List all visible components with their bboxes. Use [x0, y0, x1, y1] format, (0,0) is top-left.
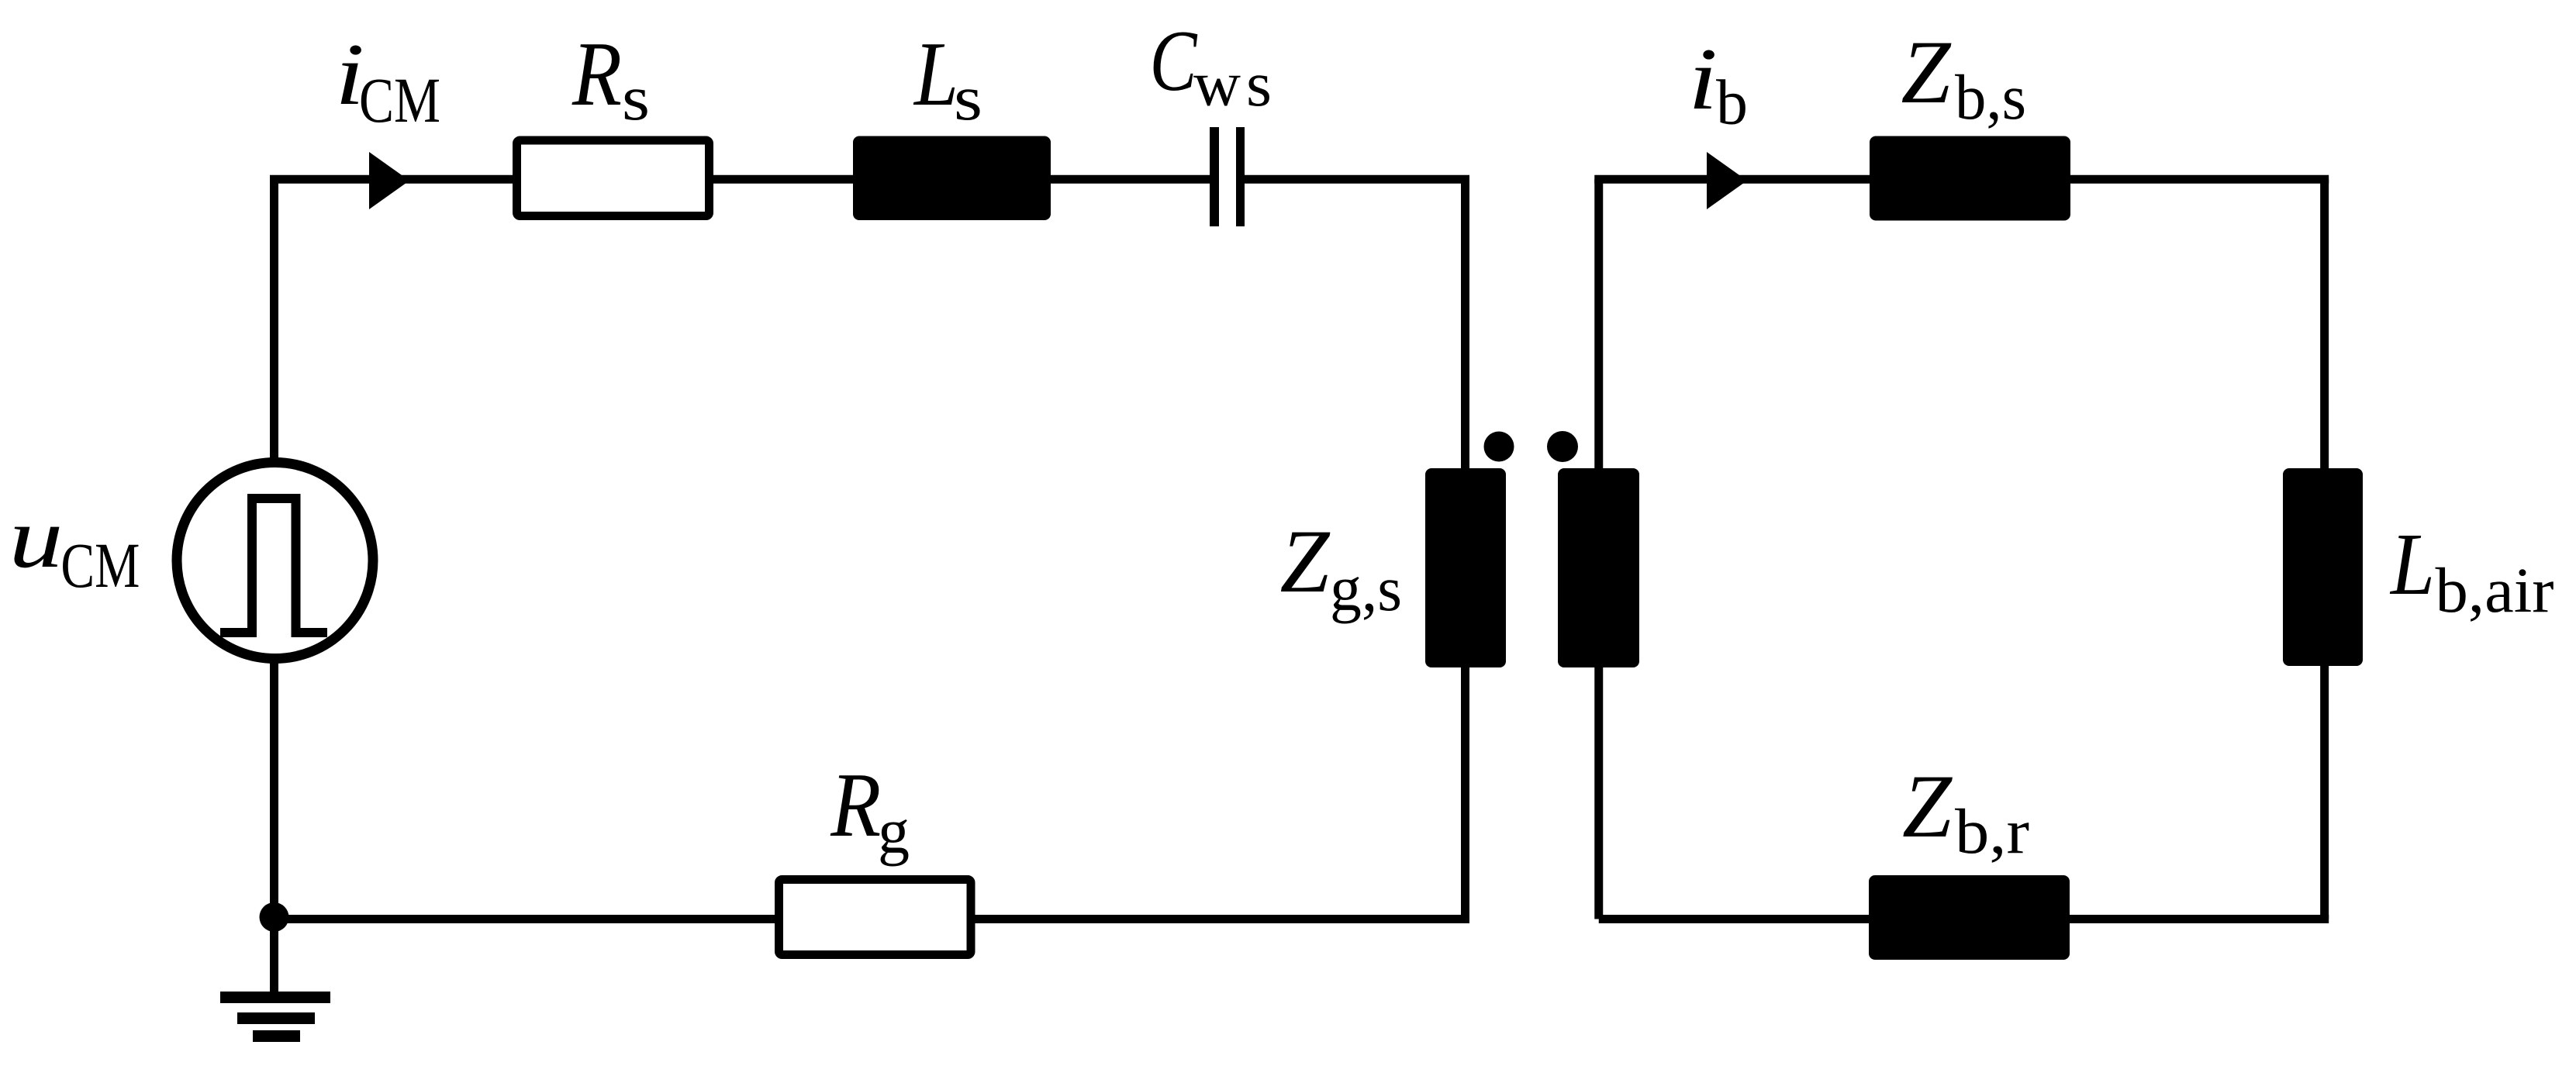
svg-text:Z: Z — [1901, 22, 1953, 122]
svg-text:C: C — [1150, 13, 1198, 109]
svg-text:Z: Z — [1280, 512, 1331, 612]
svg-text:Z: Z — [1902, 757, 1953, 857]
svg-text:b: b — [1716, 67, 1748, 138]
svg-text:R: R — [571, 22, 622, 125]
svg-text:g: g — [878, 795, 910, 867]
svg-text:CM: CM — [60, 529, 140, 601]
svg-text:b,air: b,air — [2436, 554, 2554, 626]
svg-text:g,s: g,s — [1330, 553, 1402, 624]
svg-text:u: u — [9, 490, 64, 586]
svg-text:w: w — [1193, 48, 1241, 119]
svg-text:L: L — [2389, 515, 2435, 613]
svg-text:s: s — [1246, 48, 1272, 119]
svg-text:i: i — [1688, 29, 1718, 128]
svg-text:s: s — [622, 62, 650, 133]
svg-text:CM: CM — [359, 64, 440, 136]
svg-text:s: s — [954, 62, 982, 133]
svg-text:L: L — [913, 22, 958, 125]
svg-text:b,s: b,s — [1955, 61, 2026, 133]
svg-text:R: R — [830, 754, 881, 856]
svg-text:b,r: b,r — [1955, 795, 2029, 867]
